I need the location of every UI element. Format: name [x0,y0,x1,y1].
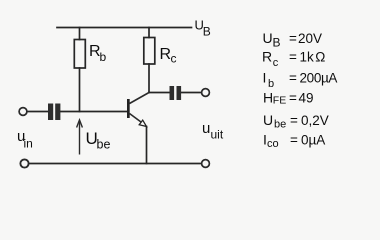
value I_co = 0µA [263,132,325,151]
label U_be [86,129,111,152]
svg-text:b: b [100,50,107,64]
svg-text:U: U [263,112,273,128]
svg-text:49: 49 [299,91,314,106]
transistor Q1 (NPN) [127,93,149,127]
svg-text:=: = [289,71,297,86]
svg-text:c: c [273,57,279,69]
label R_c [160,46,177,66]
label R_b [89,43,107,64]
svg-text:b: b [268,78,274,90]
svg-text:U: U [263,30,273,46]
value R_c = 1kΩ [262,49,325,70]
resistor Rc [144,38,155,65]
svg-text:=: = [289,50,297,65]
wire: output capacitor to output terminal [182,92,202,94]
wire: Rc top lead [148,28,150,38]
svg-text:0,2V: 0,2V [301,113,329,128]
value U_be = 0,2V [263,112,329,131]
value I_b = 200µA [263,70,338,91]
svg-text:c: c [171,52,177,66]
svg-text:in: in [24,137,33,151]
wire: emitter down lead [146,127,148,164]
svg-text:H: H [263,90,273,106]
value U_B = 20V [263,30,323,50]
wire: top supply rail [57,27,192,29]
svg-text:I: I [263,70,267,86]
label u_in [17,128,33,151]
net label U_B [195,18,211,39]
wire: Rb bottom lead [79,68,81,112]
terminal: output u_uit [202,89,210,97]
svg-text:B: B [273,36,281,50]
value H_FE = 49 [263,90,314,107]
svg-text:be: be [97,138,111,152]
svg-text:=: = [289,31,297,46]
svg-text:R: R [160,46,172,63]
wire: input capacitor to base [61,111,128,113]
terminal: bottom left [20,159,28,167]
terminal: bottom right [202,160,210,168]
svg-text:B: B [203,25,211,39]
wire: input terminal to capacitor [27,111,48,113]
svg-text:Ω: Ω [315,50,325,65]
svg-text:1k: 1k [300,50,315,65]
terminal: input u_in [19,108,27,116]
svg-text:uit: uit [211,128,224,142]
svg-text:be: be [274,119,286,131]
svg-text:0µA: 0µA [301,133,325,148]
svg-text:200µA: 200µA [300,71,338,86]
wire: collector node to output capacitor [149,92,169,94]
svg-text:=: = [290,133,298,148]
svg-text:co: co [267,138,279,150]
capacitor C_in (input coupling) [48,104,60,121]
svg-text:20V: 20V [298,31,322,46]
wire: Rb top lead [79,28,81,40]
capacitor C_out (output coupling) [170,86,182,100]
svg-text:u: u [202,120,210,137]
svg-text:FE: FE [273,95,286,107]
svg-text:=: = [289,91,297,106]
voltage arrow U_be [77,120,83,155]
label u_uit [202,120,224,142]
resistor Rb [74,40,85,69]
svg-text:R: R [262,49,272,65]
svg-text:=: = [290,113,298,128]
wire: Rc bottom lead to collector node [148,64,150,93]
wire: bottom rail [29,163,201,165]
